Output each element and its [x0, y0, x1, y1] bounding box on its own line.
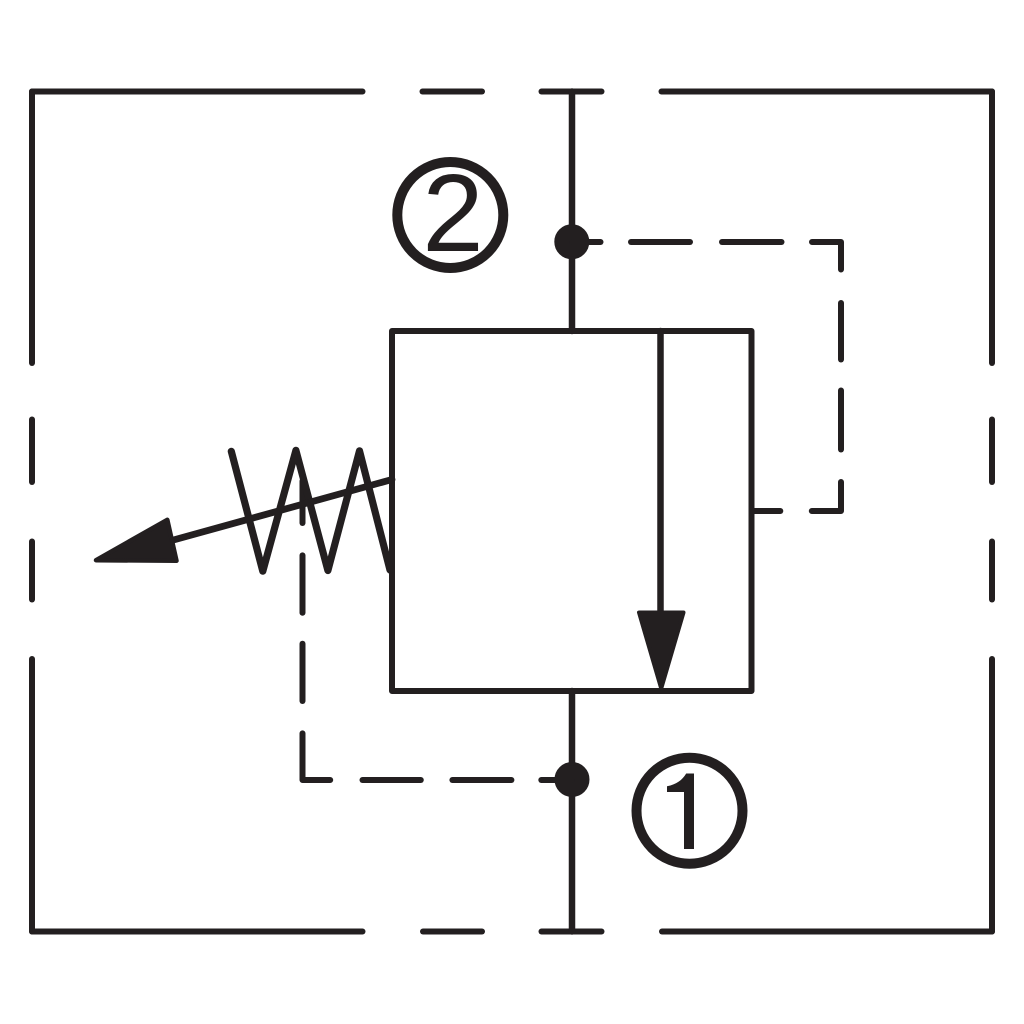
pilot line (dashed) from port-2 node going right — [572, 242, 841, 270]
valve envelope left edge — [29, 92, 35, 932]
svg-text:2: 2 — [422, 152, 483, 275]
adjustment arrow shaft — [168, 480, 392, 542]
spring (adjustable) zigzag — [231, 450, 390, 571]
wire port 2 line — [569, 92, 576, 332]
valve envelope (outer dashed boundary) top edge — [32, 89, 992, 95]
valve body box — [392, 331, 752, 691]
node junction dot at port 2 — [556, 226, 588, 258]
pilot line (dashed) left vertical run to spring — [300, 481, 306, 701]
node junction dot at port 1 — [556, 764, 588, 796]
pilot line (dashed) from port-1 node going left — [303, 733, 573, 780]
wire port 1 line — [569, 691, 576, 932]
flow path line inside box — [657, 331, 664, 616]
adjustment arrowhead — [96, 520, 177, 561]
valve envelope bottom edge — [32, 929, 992, 935]
flow arrowhead — [639, 613, 684, 689]
pilot line (dashed) right vertical run — [752, 303, 842, 511]
port 1 label text — [667, 774, 694, 850]
valve envelope right edge — [989, 92, 995, 932]
port 2 label circle — [397, 162, 503, 268]
port 1 label circle — [637, 758, 743, 864]
